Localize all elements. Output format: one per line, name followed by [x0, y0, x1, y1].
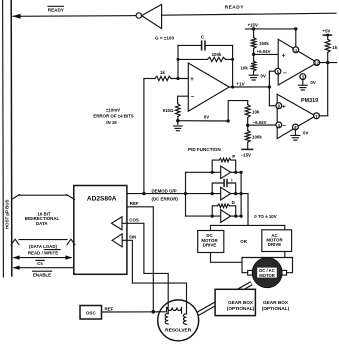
svg-text:DRIVE: DRIVE: [203, 242, 216, 247]
wire PID input bus: [185, 172, 187, 216]
host uP bus right line: [10, 0, 13, 276]
svg-text:−: −: [282, 123, 286, 130]
wire junction vertical: [268, 71, 270, 106]
resistor 10k upper divider: [251, 61, 256, 71]
svg-text:100k: 100k: [252, 135, 262, 140]
svg-text:IN 16: IN 16: [106, 120, 117, 125]
resistor 1k pull-up: [325, 39, 330, 53]
wire pin12 output: [320, 62, 337, 64]
wire P output: [231, 171, 242, 173]
capacitor C plates: [201, 41, 203, 50]
svg-text:C: C: [201, 34, 205, 39]
svg-text:+15V: +15V: [248, 23, 258, 28]
pin 5 circle: [275, 68, 281, 74]
box OSC: [80, 306, 102, 320]
resistor R 1k input: [155, 76, 171, 80]
wire D output: [231, 215, 242, 217]
svg-text:+: +: [282, 104, 286, 111]
svg-text:100k: 100k: [212, 52, 222, 57]
svg-text:REF: REF: [105, 306, 114, 311]
motor tabs: [248, 270, 253, 275]
comparator U2A triangle: [278, 39, 317, 85]
motor label plate: [257, 268, 277, 278]
svg-text:+: +: [190, 77, 194, 83]
pin 3 circle with ground: [300, 74, 306, 80]
wire to pin 9: [269, 105, 276, 107]
wire 10k to node -6.04V: [247, 118, 249, 131]
svg-text:I: I: [231, 177, 232, 182]
svg-text:+5V: +5V: [323, 29, 331, 34]
svg-text:+: +: [282, 52, 286, 59]
band right zigzag: [67, 195, 75, 200]
amplifier D stage: [186, 215, 221, 217]
resistor 100k divider2: [245, 130, 250, 142]
svg-text:DRIVE: DRIVE: [268, 242, 281, 247]
svg-text:OSC: OSC: [86, 310, 97, 315]
band bottom edge: [19, 239, 67, 241]
wire pull-up down to pin7 line: [327, 53, 329, 116]
wire pin7 output to pull-up: [319, 115, 327, 117]
pin 9 circle: [276, 103, 282, 109]
arrowhead READY left: [12, 14, 20, 19]
wire PID output bus vertical: [240, 172, 242, 216]
svg-text:10k: 10k: [252, 110, 260, 115]
svg-text:−6.04V: −6.04V: [253, 120, 267, 125]
wire COS routing: [122, 223, 168, 313]
node +15V at 150k: [252, 27, 255, 30]
resistor 910 ohm: [176, 104, 181, 117]
wire demod vertical up to 1k: [143, 79, 145, 194]
svg-text:1k: 1k: [160, 70, 165, 75]
node OSC junction: [152, 310, 156, 314]
wire 150k to node: [253, 48, 255, 61]
svg-text:OR: OR: [240, 239, 247, 244]
svg-text:GEAR BOX: GEAR BOX: [263, 300, 289, 305]
ground pin 3: [298, 85, 307, 90]
svg-text:0V: 0V: [310, 80, 315, 85]
svg-text:(DATA LOAD): (DATA LOAD): [29, 244, 57, 249]
svg-text:READY: READY: [225, 4, 245, 10]
svg-text:GEAR BOX: GEAR BOX: [228, 300, 254, 305]
svg-text:PID FUNCTION: PID FUNCTION: [188, 147, 221, 152]
wire READY from bus to inverter: [13, 15, 136, 18]
resistor 10k divider2: [245, 105, 250, 118]
wire CS arrow: [14, 267, 73, 269]
ground pin 8: [291, 135, 300, 140]
wire OSC stub inside resolver: [158, 311, 167, 313]
svg-text:D: D: [232, 200, 235, 205]
wire 1k to op-amp + input: [171, 78, 188, 80]
amp triangle P: [221, 166, 231, 179]
amp triangle D: [221, 210, 231, 223]
svg-text:P: P: [232, 154, 235, 159]
resistor 150k: [251, 38, 256, 49]
svg-text:PM319: PM319: [301, 98, 318, 104]
wire 10k to ground: [253, 71, 255, 75]
wire OSC to resolver: [102, 311, 167, 313]
node +6.04V: [252, 53, 255, 56]
wire bracket up to divider2 top: [228, 101, 248, 121]
buffer COS triangle: [112, 217, 123, 230]
svg-text:(DC ERROR): (DC ERROR): [152, 197, 179, 202]
node feedback left: [177, 58, 180, 61]
wire 910 to ground node: [177, 117, 179, 125]
svg-text:AD2S80A: AD2S80A: [87, 195, 117, 202]
wire I output: [231, 193, 248, 195]
host uP bus left line: [2, 0, 5, 277]
svg-text:ENABLE: ENABLE: [33, 272, 51, 277]
amplifier I stage: [186, 193, 221, 195]
pin 8 circle with ground: [293, 124, 299, 130]
svg-text:11: 11: [294, 49, 298, 53]
wire PID output down: [247, 194, 249, 226]
svg-text:0V: 0V: [303, 131, 308, 136]
wire feedback right leg: [232, 45, 234, 87]
resolver rotor coil top: [167, 307, 182, 313]
wire 100k rail left: [178, 58, 207, 60]
amplifier P stage: [186, 171, 221, 173]
resolver circle: [158, 300, 199, 341]
wire feedback left leg: [177, 45, 179, 78]
wire -6.04V to pin 4: [248, 124, 276, 126]
svg-text:DATA: DATA: [36, 221, 48, 226]
wire DEMOD O/P line: [127, 193, 186, 195]
resolver stator coil left: [165, 314, 168, 325]
svg-text:+1V: +1V: [236, 81, 245, 86]
wire READY right segment: [162, 13, 336, 15]
comparator U2B triangle: [277, 94, 315, 138]
svg-text:150k: 150k: [259, 41, 269, 46]
wire 100k rail right: [226, 58, 233, 60]
wire rail to 150k: [253, 29, 255, 38]
svg-text:(OPTIONAL): (OPTIONAL): [262, 306, 290, 311]
wire to pin 5: [269, 70, 275, 72]
wire SIN stub inside resolver: [186, 302, 188, 314]
wire REF out: [127, 207, 153, 312]
svg-text:1k: 1k: [332, 45, 337, 50]
resistor 100k feedback: [207, 57, 225, 61]
svg-text:10k: 10k: [240, 65, 248, 70]
wire +5V to 1k: [327, 35, 329, 39]
box GEAR BOX (OPTIONAL): [215, 289, 255, 315]
pin 11 circle: [295, 29, 297, 47]
box AC MOTOR DRIVE: [262, 230, 292, 252]
wire +15V rail: [246, 28, 296, 30]
wire COS stub inside resolver: [167, 302, 169, 313]
svg-text:READY: READY: [48, 7, 64, 12]
wire READ/WRITE double arrow: [14, 257, 71, 259]
supply bar +5V: [323, 34, 331, 36]
wire divider2 top: [247, 101, 249, 105]
inverter U3 triangle: [142, 4, 162, 28]
wire 100k to -15V bar: [247, 142, 249, 149]
ground below 910: [174, 126, 182, 131]
svg-text:−: −: [283, 70, 287, 77]
op-amp U1 triangle: [188, 63, 229, 111]
motor DC/AC circle: [252, 258, 282, 288]
inverter U3 bubble: [136, 13, 141, 18]
resistor P feedback: [219, 158, 231, 162]
svg-text:(OPTIONAL): (OPTIONAL): [227, 306, 255, 311]
svg-text:RESOLVER: RESOLVER: [165, 328, 192, 334]
op-amp output wire: [229, 86, 269, 88]
16-bit data bus band top edge: [19, 194, 67, 196]
amp triangle I: [221, 187, 231, 200]
svg-text:0V: 0V: [261, 73, 266, 78]
pin 7 circle: [314, 113, 320, 119]
svg-text:G = ±100: G = ±100: [155, 36, 174, 41]
resistor D feedback: [218, 204, 230, 208]
svg-text:MOTOR: MOTOR: [259, 273, 275, 278]
wire +6.04V to comparator + input: [254, 53, 279, 55]
wire 0V horizontal: [178, 120, 228, 122]
svg-text:0 TO ± 10V: 0 TO ± 10V: [254, 214, 276, 219]
resolver stator coil right: [183, 314, 186, 325]
svg-text:±10mV: ±10mV: [106, 107, 120, 112]
pin 12 circle: [314, 60, 320, 66]
wire - input bracket: [178, 96, 189, 104]
svg-text:ERROR OF ±4 BITS: ERROR OF ±4 BITS: [93, 114, 134, 119]
svg-text:REF: REF: [130, 201, 139, 206]
shaft motor to gearbox: [197, 283, 251, 314]
svg-text:HOST μP BUS: HOST μP BUS: [5, 199, 10, 229]
wire cap rail left: [178, 44, 201, 46]
supply bar -15V: [242, 148, 253, 150]
svg-text:READ / WRITE: READ / WRITE: [28, 251, 58, 256]
pin 4 circle: [276, 122, 282, 128]
wire DC drive to motor: [211, 253, 243, 263]
band left zigzag: [12, 195, 20, 200]
AD2S80A block U4: [74, 186, 127, 275]
svg-text:0V: 0V: [204, 115, 209, 120]
wire SIN routing: [122, 240, 186, 314]
wire drive distribution: [211, 225, 285, 230]
svg-text:+6.04V: +6.04V: [257, 49, 271, 54]
buffer SIN triangle: [112, 234, 122, 247]
svg-text:−: −: [191, 95, 195, 101]
svg-text:DEMOD O/P: DEMOD O/P: [152, 188, 177, 193]
node output junction: [268, 85, 271, 88]
svg-text:Cs: Cs: [37, 261, 43, 266]
node +15V at pin11: [294, 27, 297, 30]
svg-text:SIN: SIN: [129, 235, 136, 240]
svg-text:910Ω: 910Ω: [163, 108, 174, 113]
box DC MOTOR DRIVE: [198, 231, 224, 253]
svg-text:12: 12: [314, 61, 319, 66]
wire AC drive to motor: [284, 252, 286, 258]
node 910 bottom: [176, 119, 179, 122]
wire cap rail right: [205, 44, 233, 46]
ground upper divider: [249, 75, 258, 80]
node -6.04V: [246, 124, 249, 127]
capacitor I feedback: [223, 180, 225, 187]
svg-text:COS: COS: [129, 218, 139, 223]
svg-text:−15V: −15V: [241, 152, 251, 157]
wire motor bracket: [242, 257, 293, 259]
wire demod to 1k: [144, 78, 155, 80]
